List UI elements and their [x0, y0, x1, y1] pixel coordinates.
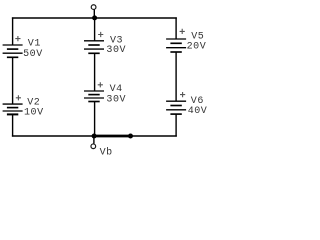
battery V1	[3, 45, 23, 57]
wire middle branch middle	[94, 53, 96, 91]
wire bold segment node Vb	[94, 135, 131, 138]
wire bottom rail	[12, 135, 177, 137]
junction dot top	[92, 15, 97, 20]
svg-text:40V: 40V	[188, 106, 208, 117]
plus mark V4	[98, 82, 103, 87]
battery V4	[84, 91, 104, 102]
battery V3	[84, 41, 104, 54]
junction dot bottom right	[128, 134, 133, 139]
battery V2	[3, 104, 23, 114]
wire left branch top	[12, 17, 14, 45]
plus mark V1	[15, 36, 20, 41]
svg-text:30V: 30V	[106, 45, 126, 56]
terminal node Vb bottom	[91, 144, 96, 149]
junction dot bottom left	[92, 134, 97, 139]
svg-text:20V: 20V	[187, 42, 207, 53]
wire middle branch bottom	[94, 102, 96, 137]
plus mark V3	[98, 32, 103, 37]
wire bottom terminal stub	[93, 136, 95, 144]
wire right branch bottom	[175, 114, 177, 137]
battery V6	[166, 101, 186, 114]
wire top rail	[12, 17, 177, 19]
svg-text:50V: 50V	[23, 49, 43, 60]
wire right branch middle	[175, 52, 177, 101]
svg-text:30V: 30V	[106, 94, 126, 105]
plus mark V5	[180, 29, 185, 34]
plus mark V6	[180, 92, 185, 97]
wire left branch bottom	[12, 114, 14, 136]
terminal node Va top	[91, 5, 96, 10]
svg-text:Vb: Vb	[100, 147, 113, 159]
plus mark V2	[16, 95, 21, 100]
wire left branch middle	[12, 57, 14, 104]
battery V5	[166, 39, 186, 52]
wire middle branch top	[94, 18, 96, 41]
wire right branch top	[175, 17, 177, 39]
svg-text:10V: 10V	[24, 108, 44, 119]
wire middle terminal stub	[93, 10, 95, 19]
svg-text:V6: V6	[191, 96, 204, 107]
